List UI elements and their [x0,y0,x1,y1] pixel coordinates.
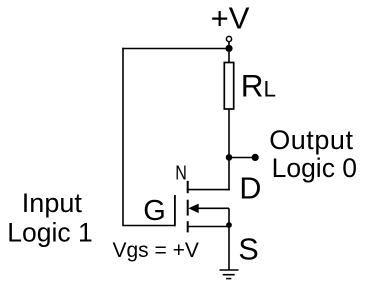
wire: top rail from junction to left [122,48,229,50]
svg-text:+V: +V [211,1,250,36]
svg-text:Logic 0: Logic 0 [272,153,357,183]
mosfet Q1 channel bottom segment [187,221,189,232]
svg-text:Logic 1: Logic 1 [7,218,92,248]
wire: resistor bottom to drain corner [228,109,230,190]
mosfet Q1 channel middle segment [187,200,189,216]
wire: source lead horizontal [188,226,229,228]
wire: drain lead horizontal [188,189,230,191]
svg-text:D: D [239,172,261,206]
ground bar 2 [223,274,235,276]
wire: output lead [229,157,254,159]
svg-text:N: N [175,162,187,184]
terminal +V open circle [226,36,231,41]
mosfet Q1 channel top segment [187,181,189,193]
wire: input left vertical [122,48,124,227]
mosfet Q1 body arrow [188,204,198,214]
svg-text:S: S [238,233,258,267]
wire: body drop to source [228,208,230,226]
wire: source down to ground [228,227,230,271]
svg-text:G: G [143,195,166,227]
svg-text:Input: Input [22,188,83,218]
svg-text:Output: Output [269,125,353,155]
svg-text:Vgs = +V: Vgs = +V [113,239,199,262]
junction dot at +V rail [225,45,232,52]
junction dot source node [226,222,232,228]
wire: body lead horizontal [198,207,230,209]
wire: +V terminal down to resistor top [228,42,230,64]
mosfet Q1 gate plate [174,195,176,226]
ground bar 1 [220,269,239,271]
ground bar 3 [226,278,231,280]
resistor RL [224,63,233,110]
wire: gate lead horizontal [123,225,176,227]
junction dot output node [226,154,233,161]
terminal dot output [252,154,259,161]
